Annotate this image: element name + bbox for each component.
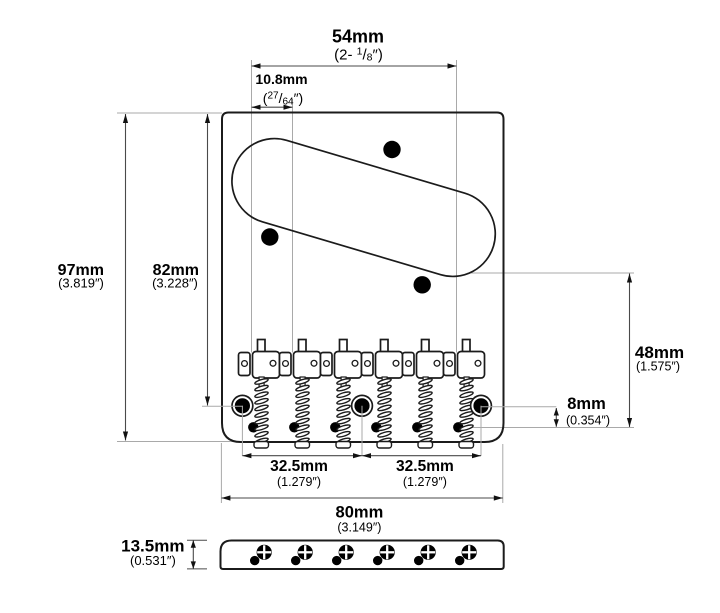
saddle 3: left slider block [321, 353, 333, 376]
side view: string ferrule hole 6 [455, 556, 464, 565]
pickup opening (slanted stadium cutout) [222, 128, 506, 286]
saddle 4: intonation screw head [381, 340, 389, 354]
saddle 6: left height-screw hole [447, 361, 453, 367]
extension line: string 1 / 54mm left witness [251, 60, 253, 353]
extension line: string 6 / 54mm right witness [456, 60, 458, 353]
witness line: hole 1 center down to 32.5mm line [241, 406, 243, 456]
side view: mounting screw head 1 (phillips) [257, 545, 272, 560]
side view: string ferrule hole 3 [332, 556, 341, 565]
saddle 3: intonation screw shaft [341, 377, 346, 389]
dimension line 8mm (double arrow) [555, 408, 557, 427]
saddle 5: intonation screw shaft [423, 377, 428, 389]
saddle 2: left slider block [280, 353, 292, 376]
extension tick: side-view top for 13.5mm [187, 539, 207, 541]
string hole 6 (black dot) [453, 422, 463, 432]
extension line: pickup-opening bottom rightward for 48mm top [468, 272, 635, 274]
saddle 1: intonation screw shaft [259, 377, 264, 389]
saddle 6: intonation spring coils [459, 378, 473, 445]
saddle 6: screw tip ferrule [459, 442, 474, 449]
witness line: hole 2 center down to 32.5mm line [361, 406, 363, 456]
string hole 5 (black dot) [412, 422, 422, 432]
dimension line 48mm [629, 274, 631, 428]
witness line: 82mm bottom to hole 1 center [202, 405, 243, 407]
saddle 5: left slider block [403, 353, 415, 376]
witness line: hole 3 center rightward for 8mm top [481, 406, 556, 408]
dimension line 80mm [221, 497, 502, 499]
side view: string ferrule hole 2 [291, 556, 300, 565]
side view: string ferrule hole 5 [414, 556, 423, 565]
bridge plate outline (top view) [222, 113, 504, 443]
saddle 4: left slider block [362, 353, 374, 376]
svg-text:80mm: 80mm [336, 504, 384, 522]
saddle 2: right height-screw hole [311, 360, 317, 366]
saddle 1: intonation screw head [258, 340, 266, 354]
saddle 6: intonation screw head [463, 340, 471, 354]
saddle 1: left slider block [239, 353, 251, 376]
extension line: plate right edge down for 80mm [502, 444, 504, 503]
svg-text:(3.149″): (3.149″) [337, 521, 381, 535]
saddle 5: screw tip ferrule [418, 442, 433, 449]
saddle 2: intonation screw head [299, 340, 307, 354]
saddle 4: main block [376, 352, 403, 379]
saddle 4: intonation screw shaft [382, 377, 387, 389]
string hole 1 (black dot) [248, 422, 258, 432]
saddle 3: screw tip ferrule [336, 442, 351, 449]
dimension line 97mm [125, 114, 127, 441]
pickup mounting hole (top) [383, 141, 400, 158]
svg-text:32.5mm: 32.5mm [270, 458, 328, 475]
saddle 4: screw tip ferrule [377, 442, 392, 449]
saddle 3: right height-screw hole [352, 360, 358, 366]
svg-text:(1.575″): (1.575″) [636, 360, 680, 374]
saddle 5: intonation spring coils [418, 378, 432, 445]
side view: string ferrule hole 4 [373, 556, 382, 565]
string hole 3 (black dot) [330, 422, 340, 432]
svg-text:32.5mm: 32.5mm [396, 458, 454, 475]
dimension line 54mm [252, 65, 457, 67]
saddle 4: intonation spring coils [377, 378, 391, 445]
plate mounting screw hole 2 (ringed) [352, 395, 373, 416]
svg-text:(1.279″): (1.279″) [403, 475, 447, 489]
svg-text:(3.228″): (3.228″) [152, 276, 198, 291]
side view: mounting screw head 2 (phillips) [298, 545, 313, 560]
pickup mounting hole (left) [261, 228, 278, 245]
saddle 5: intonation screw head [422, 340, 430, 354]
string hole 2 (black dot) [289, 422, 299, 432]
side view: mounting screw head 4 (phillips) [380, 545, 395, 560]
string hole 4 (black dot) [371, 422, 381, 432]
svg-text:10.8mm: 10.8mm [255, 71, 307, 87]
saddle 1: right height-screw hole [270, 360, 276, 366]
saddle 2: left height-screw hole [283, 361, 289, 367]
saddle 5: main block [417, 352, 444, 379]
saddle 1: screw tip ferrule [254, 442, 269, 449]
side view: mounting screw head 6 (phillips) [462, 545, 477, 560]
dimension line 10.8mm [252, 106, 293, 108]
extension line: plate top edge leftward for 97mm/82mm [117, 112, 222, 114]
plate mounting screw hole 3 (ringed) [471, 395, 492, 416]
saddle 1: left height-screw hole [242, 361, 248, 367]
extension line: string 2 / 10.8mm right witness [292, 99, 294, 353]
svg-text:(0.354″): (0.354″) [566, 414, 610, 428]
saddle 2: main block [294, 352, 321, 379]
extension tick: side-view bottom for 13.5mm [187, 568, 207, 570]
dimension line 82mm [207, 114, 209, 406]
saddle 3: intonation screw head [340, 340, 348, 354]
dimension line 32.5mm (right span) [362, 455, 481, 457]
saddle 2: intonation spring coils [295, 378, 309, 445]
side view: string ferrule hole 1 [250, 556, 259, 565]
svg-text:(3.819″): (3.819″) [58, 276, 104, 291]
saddle 2: screw tip ferrule [295, 442, 310, 449]
saddle 3: main block [335, 352, 362, 379]
saddle 3: left height-screw hole [324, 361, 330, 367]
saddle 4: left height-screw hole [365, 361, 371, 367]
dimension line 32.5mm (left span) [242, 455, 362, 457]
pickup mounting hole (bottom right) [414, 276, 431, 293]
extension line: string-hole row rightward for 48mm/8mm bottom [456, 427, 634, 429]
saddle 6: main block [458, 352, 485, 379]
saddle 4: right height-screw hole [393, 360, 399, 366]
saddle 1: intonation spring coils [254, 378, 268, 445]
side view: mounting screw head 3 (phillips) [339, 545, 354, 560]
saddle 5: right height-screw hole [434, 360, 440, 366]
saddle 3: intonation spring coils [336, 378, 350, 445]
bridge plate side view outline [221, 541, 504, 570]
extension line: plate left edge down for 80mm [220, 443, 222, 503]
saddle 6: intonation screw shaft [464, 377, 469, 389]
svg-text:(1.279″): (1.279″) [277, 475, 321, 489]
svg-text:54mm: 54mm [332, 27, 384, 47]
extension line: plate bottom edge leftward for 97mm [117, 441, 238, 443]
svg-text:(0.531″): (0.531″) [130, 553, 176, 568]
saddle 6: left slider block [444, 353, 456, 376]
saddle 1: main block [253, 352, 280, 379]
witness line: hole 3 center down to 32.5mm line [480, 406, 482, 456]
saddle 5: left height-screw hole [406, 361, 412, 367]
svg-text:8mm: 8mm [567, 395, 606, 413]
side view: mounting screw head 5 (phillips) [421, 545, 436, 560]
plate mounting screw hole 1 (ringed) [232, 395, 253, 416]
saddle 6: right height-screw hole [475, 360, 481, 366]
dimension line 13.5mm [192, 540, 194, 569]
saddle 2: intonation screw shaft [300, 377, 305, 389]
